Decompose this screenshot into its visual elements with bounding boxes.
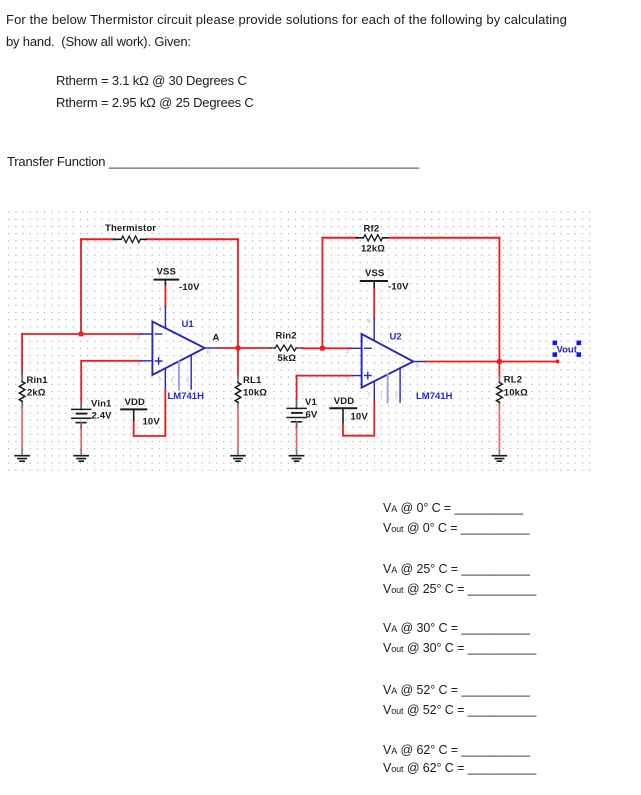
op-amp U2 pin 4 lead xyxy=(373,319,375,341)
svg-text:LM741H: LM741H xyxy=(416,391,453,402)
svg-text:RL2: RL2 xyxy=(504,375,522,386)
svg-text:A: A xyxy=(213,333,220,344)
op-amp U1 pin 4 lead xyxy=(164,307,166,328)
wire: V1 top vertical xyxy=(296,376,298,401)
wire: output to Vout pin xyxy=(499,361,557,363)
resistor Rin1 leads xyxy=(21,376,23,408)
transfer function blank xyxy=(7,154,419,169)
svg-text:-10V: -10V xyxy=(179,282,200,293)
op-amp U1 minus sign xyxy=(155,333,161,335)
battery V1 xyxy=(287,401,306,429)
ground under V1 xyxy=(290,451,304,462)
svg-text:10V: 10V xyxy=(143,417,161,428)
op-amp U2 bottom pins xyxy=(374,368,400,402)
op-amp U1 plus sign xyxy=(155,358,161,364)
svg-text:7: 7 xyxy=(368,393,371,399)
answer blanks xyxy=(383,501,523,515)
svg-text:VDD: VDD xyxy=(125,397,146,408)
given value 2 xyxy=(56,95,254,110)
svg-text:1: 1 xyxy=(171,378,174,384)
svg-text:6: 6 xyxy=(207,350,210,356)
svg-text:10kΩ: 10kΩ xyxy=(243,388,267,399)
svg-text:5kΩ: 5kΩ xyxy=(278,353,297,364)
svg-text:5: 5 xyxy=(395,393,398,399)
svg-text:VSS: VSS xyxy=(157,267,176,278)
wire: U2 output to right vertical xyxy=(425,361,499,363)
svg-text:2kΩ: 2kΩ xyxy=(27,388,46,399)
svg-text:6V: 6V xyxy=(306,410,318,421)
Vout wire end dot xyxy=(556,360,560,364)
svg-text:-10V: -10V xyxy=(388,282,409,293)
op-amp U1 input pin leads xyxy=(141,334,152,361)
wire: feedback top horizontal (thermistor net) xyxy=(81,238,238,240)
op-amp U2 minus sign xyxy=(365,347,371,349)
wire: Rin2 to U2 inverting input xyxy=(303,347,351,349)
resistor Rf2 zigzag xyxy=(363,235,382,241)
svg-text:2: 2 xyxy=(346,349,349,355)
resistor RL1 leads xyxy=(237,377,239,408)
wire: Vin1 top vertical xyxy=(80,361,82,403)
resistor RL2 leads xyxy=(498,377,500,408)
node junction output/RL2 xyxy=(497,359,502,364)
op-amp U1 output lead xyxy=(205,347,218,349)
wire: Rf2 left vertical xyxy=(321,238,323,348)
svg-text:3: 3 xyxy=(346,377,349,383)
wire: RL2 top vertical xyxy=(498,362,500,377)
ground under RL2 xyxy=(492,451,506,462)
wire: RL1 bottom vertical xyxy=(237,408,239,451)
wire: VSS to U2 pin4 xyxy=(373,289,375,319)
svg-text:LM741H: LM741H xyxy=(168,391,205,402)
wire: V1 bottom vertical xyxy=(296,429,298,451)
power VSS (U2) xyxy=(361,281,387,289)
node junction at inverting input xyxy=(79,332,84,337)
op-amp U2 output lead xyxy=(413,361,425,363)
svg-text:RL1: RL1 xyxy=(243,375,262,386)
ground under Vin1 xyxy=(74,451,88,462)
battery Vin1 xyxy=(72,403,91,430)
svg-text:10kΩ: 10kΩ xyxy=(504,388,528,399)
svg-text:12kΩ: 12kΩ xyxy=(361,244,385,255)
resistor Rin1 zigzag xyxy=(19,382,25,402)
power VDD (U1) xyxy=(121,409,146,422)
wire: Rin1 bottom vertical xyxy=(21,408,23,451)
svg-text:Rin2: Rin2 xyxy=(276,331,297,342)
power VDD (U2) xyxy=(330,408,356,423)
ground under RL1 xyxy=(231,451,245,462)
svg-text:V1: V1 xyxy=(305,397,317,408)
svg-text:4: 4 xyxy=(159,307,162,313)
svg-text:1: 1 xyxy=(380,393,383,399)
svg-text:Vin1: Vin1 xyxy=(91,399,112,410)
svg-text:6: 6 xyxy=(416,364,419,370)
resistor RL2 zigzag xyxy=(497,383,503,403)
wire: U1 output to node A xyxy=(218,347,239,349)
svg-text:Rin1: Rin1 xyxy=(27,375,49,386)
svg-text:Vout: Vout xyxy=(557,345,578,356)
title text line 1 xyxy=(6,12,567,27)
svg-text:7: 7 xyxy=(159,378,162,384)
op-amp U1 triangle xyxy=(152,322,204,376)
resistor Rin2 zigzag xyxy=(275,345,296,351)
svg-text:U2: U2 xyxy=(390,332,402,343)
thermistor RT leads xyxy=(114,238,147,240)
wire: Vin1 bottom vertical xyxy=(80,429,82,450)
node A junction dot xyxy=(236,346,241,351)
resistor Rin2 leads xyxy=(271,347,303,349)
node junction Rf2/U2 input xyxy=(320,346,325,351)
wire: feedback left vertical xyxy=(80,239,82,334)
svg-text:Thermistor: Thermistor xyxy=(105,223,156,234)
wire: U2 plus input from V1 xyxy=(297,375,351,377)
wire: RL2 bottom vertical xyxy=(498,408,500,451)
title text line 2 xyxy=(6,34,191,49)
wire: inverting input horizontal xyxy=(22,333,141,335)
op-amp U2 plus sign xyxy=(365,372,371,378)
svg-text:2.4V: 2.4V xyxy=(92,410,113,421)
svg-text:Rf2: Rf2 xyxy=(364,223,380,234)
svg-text:VSS: VSS xyxy=(365,268,384,279)
wire: node A vertical (thermistor right side down to RL1) xyxy=(237,239,239,376)
thermistor RT zigzag xyxy=(121,236,140,242)
wire: node A to Rin2 xyxy=(238,347,271,349)
power VSS (U1) xyxy=(155,280,179,287)
ground under Rin1 xyxy=(15,451,29,462)
svg-text:2: 2 xyxy=(137,335,140,341)
wire: VDD to U2 pin7 xyxy=(343,402,374,436)
svg-text:4: 4 xyxy=(368,319,371,325)
wire: Rf2 right vertical xyxy=(498,238,500,362)
svg-text:VDD: VDD xyxy=(334,396,355,407)
svg-text:3: 3 xyxy=(137,362,140,368)
wire: Rin1 top vertical xyxy=(21,334,23,376)
svg-text:10V: 10V xyxy=(351,412,369,423)
wire: VSS to U1 pin4 xyxy=(164,286,166,307)
wire: Rf2 top horizontal xyxy=(322,237,499,239)
svg-text:5: 5 xyxy=(186,378,189,384)
op-amp U1 bottom pins xyxy=(165,355,191,389)
op-amp U2 input pin leads xyxy=(351,348,362,375)
wire: VDD to U1 pin7 xyxy=(134,389,166,436)
resistor Rf2 leads xyxy=(357,237,388,239)
given value 1 xyxy=(56,73,247,88)
Vout selection handles xyxy=(553,341,582,357)
wire: non-inverting input horizontal xyxy=(81,360,141,362)
svg-text:U1: U1 xyxy=(182,319,195,330)
resistor RL1 zigzag xyxy=(235,383,241,403)
op-amp U2 triangle xyxy=(362,334,414,388)
